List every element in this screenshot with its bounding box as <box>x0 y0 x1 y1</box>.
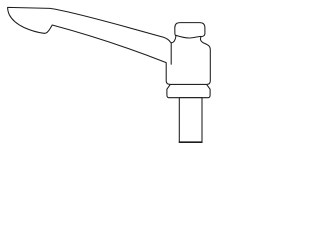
stud base line <box>180 141 202 143</box>
adjustable clamping lever line drawing <box>0 0 224 150</box>
outline: lever handle + cap + body hub <box>8 7 211 84</box>
stud <box>179 98 202 143</box>
handle-body seam <box>170 43 172 64</box>
cap bottom rim <box>176 35 201 38</box>
collar <box>167 84 210 97</box>
